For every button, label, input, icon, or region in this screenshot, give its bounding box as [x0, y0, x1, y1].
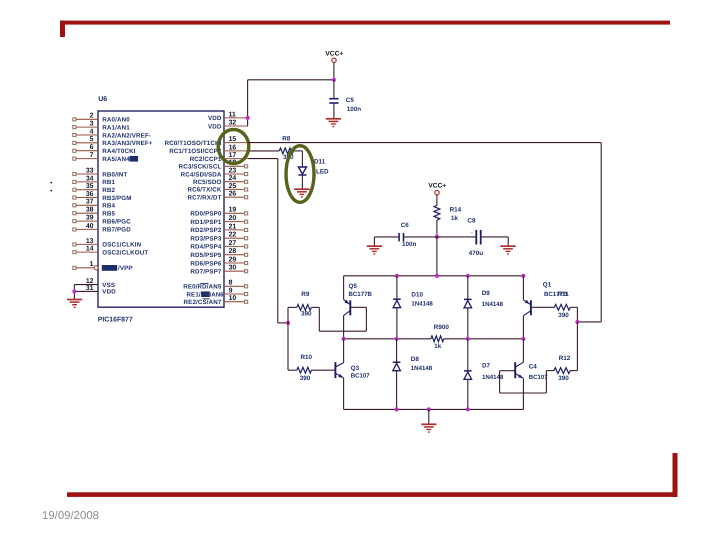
- svg-text:1k: 1k: [451, 215, 459, 222]
- svg-text:10: 10: [229, 295, 237, 302]
- wire D9 top: [467, 276, 469, 299]
- svg-text:C6: C6: [401, 222, 410, 229]
- wire mid rail left: [344, 338, 431, 340]
- transistor Q1 BC177B (PNP): [523, 300, 531, 316]
- LED D11: [298, 167, 306, 175]
- ground below LED D11: [294, 189, 309, 197]
- svg-text:D9: D9: [482, 290, 491, 297]
- svg-text:RA4/T0CKI: RA4/T0CKI: [102, 148, 135, 155]
- U6 left pin labels: [102, 117, 153, 296]
- svg-text:13: 13: [86, 238, 94, 245]
- wire mid rail right: [444, 338, 524, 340]
- wire Q1 collector stub: [522, 316, 524, 339]
- svg-text:D7: D7: [482, 363, 491, 370]
- ground at C8: [500, 246, 515, 254]
- transistor C4 BC107 (NPN): [515, 362, 524, 379]
- svg-text:R9: R9: [301, 291, 310, 298]
- wire R11 to RC0 node: [570, 307, 577, 322]
- label R8 390: [282, 136, 294, 162]
- wire pin17 RC2 down to base resistors: [248, 159, 288, 323]
- svg-text:D8: D8: [411, 356, 420, 363]
- junction bottom rail / D8: [395, 407, 399, 411]
- svg-text:19: 19: [229, 207, 237, 214]
- svg-text:R10: R10: [301, 354, 313, 361]
- wire R10 to Q3 base: [312, 369, 335, 371]
- highlight ellipse around LED D11: [286, 146, 314, 203]
- svg-text:RE2/CS/AN7: RE2/CS/AN7: [184, 299, 222, 306]
- label C8 470u: [468, 218, 484, 258]
- svg-text:8: 8: [229, 280, 233, 287]
- wire Q3 emitter stub: [343, 378, 345, 410]
- wire top rail of H-bridge: [344, 275, 524, 277]
- wire VCC to R14: [436, 195, 438, 206]
- svg-text:390: 390: [558, 312, 569, 319]
- svg-text:RD3/PSP3: RD3/PSP3: [190, 236, 222, 243]
- svg-text:OSC1/CLKIN: OSC1/CLKIN: [102, 242, 141, 249]
- junction mid rail / Q1-C4: [521, 337, 525, 341]
- svg-text:1N4148: 1N4148: [411, 300, 433, 307]
- svg-text:VDD: VDD: [102, 289, 116, 296]
- svg-text:4: 4: [90, 128, 94, 135]
- wire C4 base loop to R12: [500, 371, 554, 393]
- wire R12 to RC0 node: [570, 370, 577, 372]
- svg-text:33: 33: [86, 167, 94, 174]
- diode D8 1N4148: [393, 362, 401, 371]
- svg-text:RD4/PSP4: RD4/PSP4: [190, 244, 222, 251]
- wire pin15 RC0 long net to H-bridge right side: [248, 143, 601, 322]
- svg-text:30: 30: [229, 265, 237, 272]
- wire pin11/pin32 VDD to VCC riser: [248, 80, 334, 126]
- label D7 1N4148: [482, 363, 504, 381]
- svg-text:27: 27: [229, 240, 237, 247]
- svg-text:+: +: [470, 230, 473, 236]
- diode D9 1N4148: [464, 299, 472, 308]
- svg-text:1N4148: 1N4148: [482, 374, 504, 381]
- svg-text:40: 40: [86, 223, 94, 230]
- wire LED to ground: [301, 176, 303, 189]
- svg-text:VCC+: VCC+: [325, 50, 343, 57]
- label R12 390: [558, 355, 571, 382]
- svg-text:PIC16F877: PIC16F877: [98, 316, 133, 323]
- wire junction down to R12: [576, 322, 578, 371]
- svg-text:RC1/T1OSI/CCP2: RC1/T1OSI/CCP2: [169, 148, 222, 155]
- svg-text:VCC+: VCC+: [428, 182, 446, 189]
- wire Q5 collector stub: [343, 316, 345, 339]
- svg-text:1N4148: 1N4148: [482, 301, 504, 308]
- svg-text:16: 16: [229, 144, 237, 151]
- wire junction down to R10: [288, 323, 297, 370]
- svg-text:RB1: RB1: [102, 179, 115, 186]
- resistor R10: [297, 367, 312, 373]
- label Q1 BC177B R11: [543, 282, 570, 299]
- junction bottom rail / D7: [466, 407, 470, 411]
- svg-text:RD1/PSP1: RD1/PSP1: [190, 219, 222, 226]
- svg-text:RC7/RX/DT: RC7/RX/DT: [187, 195, 221, 202]
- junction node RC2/R9/R10: [286, 321, 290, 325]
- svg-text:RB0/INT: RB0/INT: [102, 171, 127, 178]
- U6 right pin bank: pins 11,32,15,16,17,18,23,24,25,26,19,20,21,22,27,28,29,30,8,9,10: [224, 111, 248, 303]
- label R9 390: [301, 291, 312, 317]
- wire D10 bottom: [396, 308, 398, 339]
- svg-text:RA2/AN2/VREF-: RA2/AN2/VREF-: [102, 132, 151, 139]
- power symbol VCC+ (top): [325, 50, 343, 62]
- wire VCC+ down to junction: [333, 63, 335, 80]
- svg-text:RD2/PSP2: RD2/PSP2: [190, 227, 222, 234]
- wire pin12 VSS to ground: [74, 285, 98, 299]
- label D8 1N4148: [411, 356, 433, 372]
- junction RC0/R11/R12: [575, 320, 579, 324]
- capacitor C6: [398, 233, 404, 241]
- svg-text:R12: R12: [559, 355, 571, 362]
- svg-text:RA0/AN0: RA0/AN0: [102, 117, 130, 124]
- svg-text:/VPP: /VPP: [118, 265, 133, 272]
- svg-text:20: 20: [229, 215, 237, 222]
- svg-text:470u: 470u: [469, 250, 484, 257]
- svg-text:VDD: VDD: [208, 115, 222, 122]
- svg-text:35: 35: [86, 183, 94, 190]
- junction mid rail / D9-D7: [466, 337, 470, 341]
- svg-text:RB5: RB5: [102, 211, 115, 218]
- capacitor C8 (electrolytic, +): [470, 230, 481, 245]
- svg-text:390: 390: [301, 311, 312, 318]
- svg-text:C5: C5: [346, 97, 355, 104]
- svg-text:RA3/AN3/VREF+: RA3/AN3/VREF+: [102, 140, 152, 147]
- svg-text:34: 34: [86, 175, 94, 182]
- svg-text:BC107: BC107: [529, 374, 549, 381]
- svg-text:26: 26: [229, 191, 237, 198]
- svg-text:RB3/PGM: RB3/PGM: [102, 195, 131, 202]
- svg-text:19/09/2008: 19/09/2008: [42, 510, 99, 522]
- wire Q1 base to R11: [532, 306, 555, 308]
- wire Q5 emitter stub: [343, 276, 345, 300]
- wire C5 to ground: [333, 104, 335, 119]
- svg-text:R14: R14: [450, 206, 462, 213]
- svg-text:17: 17: [229, 152, 237, 159]
- capacitor C5: [329, 98, 338, 104]
- resistor R12: [554, 368, 570, 374]
- svg-text:RB6/PGC: RB6/PGC: [102, 218, 131, 225]
- svg-text:RC3/SCK/SCL: RC3/SCK/SCL: [179, 164, 222, 171]
- svg-text:RC2/CCP1: RC2/CCP1: [190, 156, 222, 163]
- svg-text:U6: U6: [98, 96, 107, 103]
- svg-text:38: 38: [86, 207, 94, 214]
- wire ground tap: [428, 409, 430, 424]
- svg-text:28: 28: [229, 248, 237, 255]
- svg-text:3: 3: [90, 121, 94, 128]
- svg-text:R11: R11: [558, 291, 570, 298]
- svg-text:RB2: RB2: [102, 187, 115, 194]
- svg-text:C4: C4: [529, 364, 538, 371]
- transistor Q3 BC107 (NPN): [335, 362, 344, 379]
- svg-text:OSC2/CLKOUT: OSC2/CLKOUT: [102, 249, 148, 256]
- svg-text:RD6/PSP6: RD6/PSP6: [190, 260, 222, 267]
- svg-text:390: 390: [300, 375, 311, 382]
- label D11 LED: [314, 158, 329, 175]
- wire junction down to top rail: [436, 237, 438, 276]
- wire bottom rail of H-bridge: [344, 408, 524, 410]
- svg-text:BC177B: BC177B: [349, 291, 373, 298]
- label R900 1k: [434, 324, 450, 350]
- label Q5 BC177B: [349, 283, 373, 298]
- svg-text:11: 11: [229, 111, 236, 118]
- U6 left pin bank: pins 2,3,4,5,6,7,33,34,35,36,37,38,39,40,13,14,1,12,31: [73, 113, 98, 292]
- label D9 1N4148: [482, 290, 504, 308]
- svg-text:22: 22: [229, 232, 237, 239]
- svg-text:BC107: BC107: [351, 373, 371, 380]
- wire Q3 collector stub: [343, 339, 345, 363]
- junction mid rail / D10-D8: [395, 337, 399, 341]
- junction top rail / supply: [435, 274, 439, 278]
- svg-text:25: 25: [229, 183, 237, 190]
- wire junction up to R9: [288, 307, 297, 323]
- svg-text:D11: D11: [314, 158, 326, 165]
- wire R9 to Q5 base: [311, 307, 366, 331]
- svg-text:RD5/PSP5: RD5/PSP5: [190, 252, 222, 259]
- resistor R8: [279, 148, 293, 154]
- label C6 100n: [401, 222, 417, 248]
- svg-text:Q3: Q3: [351, 365, 360, 372]
- svg-text:1N4148: 1N4148: [411, 365, 433, 372]
- svg-text:/AN6: /AN6: [210, 291, 224, 298]
- svg-text:14: 14: [86, 246, 94, 253]
- svg-text:RC4/SDI/SDA: RC4/SDI/SDA: [181, 171, 222, 178]
- svg-text:VDD: VDD: [208, 123, 222, 130]
- svg-text:RE1/: RE1/: [186, 291, 200, 298]
- svg-text:15: 15: [229, 136, 237, 143]
- svg-text:21: 21: [229, 223, 237, 230]
- label C5 100n: [346, 97, 361, 113]
- svg-text:RC6/TX/CK: RC6/TX/CK: [187, 187, 221, 194]
- wire pin16 RC1 to R8: [248, 150, 279, 152]
- wire D9 bottom: [467, 308, 469, 339]
- junction top rail / Q1 emitter: [521, 274, 525, 278]
- junction pins 11/32: [246, 116, 250, 120]
- svg-text:Q5: Q5: [349, 283, 358, 290]
- wire C4 emitter stub: [522, 378, 524, 409]
- label Q3 BC107: [351, 365, 371, 380]
- svg-text:23: 23: [229, 167, 237, 174]
- svg-text:29: 29: [229, 256, 237, 263]
- svg-text:C8: C8: [468, 218, 477, 225]
- svg-text:9: 9: [229, 287, 233, 294]
- svg-text:5: 5: [90, 136, 94, 143]
- svg-text:RB7/PGD: RB7/PGD: [102, 227, 131, 234]
- svg-text:LED: LED: [316, 169, 329, 176]
- svg-text:31: 31: [86, 285, 94, 292]
- wire Q1 emitter stub: [522, 276, 524, 300]
- resistor R14: [434, 205, 440, 220]
- svg-text:RE0/RD/AN5: RE0/RD/AN5: [183, 284, 222, 291]
- diode D10 1N4148: [393, 299, 401, 308]
- wire R14 to junction: [436, 220, 438, 237]
- wire C4 collector stub: [522, 339, 524, 362]
- junction R14/C6/C8: [435, 235, 439, 239]
- wire C8 to ground: [482, 237, 509, 246]
- resistor R9: [297, 305, 312, 311]
- svg-text:RC5/SDO: RC5/SDO: [193, 179, 222, 186]
- U6 right pin labels: [165, 115, 225, 306]
- junction bottom rail / ground tap: [427, 407, 431, 411]
- svg-text:7: 7: [90, 152, 94, 159]
- wire junction to C8: [437, 236, 476, 238]
- junction mid rail / Q5-Q3: [342, 337, 346, 341]
- svg-text:R8: R8: [282, 136, 291, 143]
- svg-text:390: 390: [558, 375, 569, 382]
- svg-text:6: 6: [90, 144, 94, 151]
- label R10 390: [300, 354, 313, 382]
- junction top rail / D10: [395, 274, 399, 278]
- svg-text:RD7/PSP7: RD7/PSP7: [190, 269, 222, 276]
- junction pin31 node: [72, 289, 76, 293]
- power symbol VCC+ (bridge supply): [428, 182, 446, 195]
- svg-text:RC0/T1OSO/T1CKI: RC0/T1OSO/T1CKI: [165, 140, 222, 147]
- ground at C6: [367, 246, 382, 254]
- label C4 BC107: [529, 364, 549, 382]
- svg-text:100n: 100n: [402, 241, 417, 248]
- svg-text:100n: 100n: [347, 106, 362, 113]
- svg-text:RA5/AN4/: RA5/AN4/: [102, 156, 132, 163]
- ground below C5: [326, 119, 341, 127]
- wire junction to C6: [404, 236, 437, 238]
- wire D7 top: [467, 339, 469, 371]
- svg-text:RB4: RB4: [102, 203, 115, 210]
- wire C6 to ground: [374, 237, 398, 246]
- svg-text:24: 24: [229, 175, 237, 182]
- resistor R11: [554, 304, 570, 310]
- wire D7 bottom: [467, 380, 469, 410]
- ground below H-bridge: [421, 424, 436, 432]
- wire D8 bottom: [396, 371, 398, 410]
- svg-text:Q1: Q1: [543, 282, 552, 289]
- resistor R900: [431, 336, 444, 342]
- junction top rail / D9: [466, 274, 470, 278]
- svg-text:1k: 1k: [434, 343, 442, 350]
- svg-text:2: 2: [90, 113, 94, 120]
- label D10 1N4148: [411, 292, 433, 308]
- diode D7 1N4148: [464, 371, 472, 380]
- wire junction to C5: [333, 80, 335, 98]
- highlight ellipse around pins 15-17: [218, 130, 249, 164]
- wire D8 top: [396, 339, 398, 362]
- svg-text:32: 32: [229, 119, 237, 126]
- svg-text:39: 39: [86, 215, 94, 222]
- label R14 1k: [450, 206, 462, 222]
- svg-text:D10: D10: [411, 292, 423, 299]
- svg-text:37: 37: [86, 199, 94, 206]
- ground at IC VSS: [67, 300, 82, 308]
- junction VCC/C5: [332, 78, 336, 82]
- svg-text:RA1/AN1: RA1/AN1: [102, 124, 130, 131]
- svg-text:RD0/PSP0: RD0/PSP0: [190, 211, 222, 218]
- transistor Q5 BC177B (PNP): [344, 300, 351, 316]
- wire D10 top: [396, 276, 398, 299]
- svg-text:1: 1: [90, 261, 94, 268]
- svg-text:R900: R900: [434, 324, 450, 331]
- op-amp-style IC body: microcontroller U6 PIC16F877: [98, 111, 224, 307]
- wire R8 to LED D11: [294, 151, 303, 167]
- svg-text:36: 36: [86, 191, 94, 198]
